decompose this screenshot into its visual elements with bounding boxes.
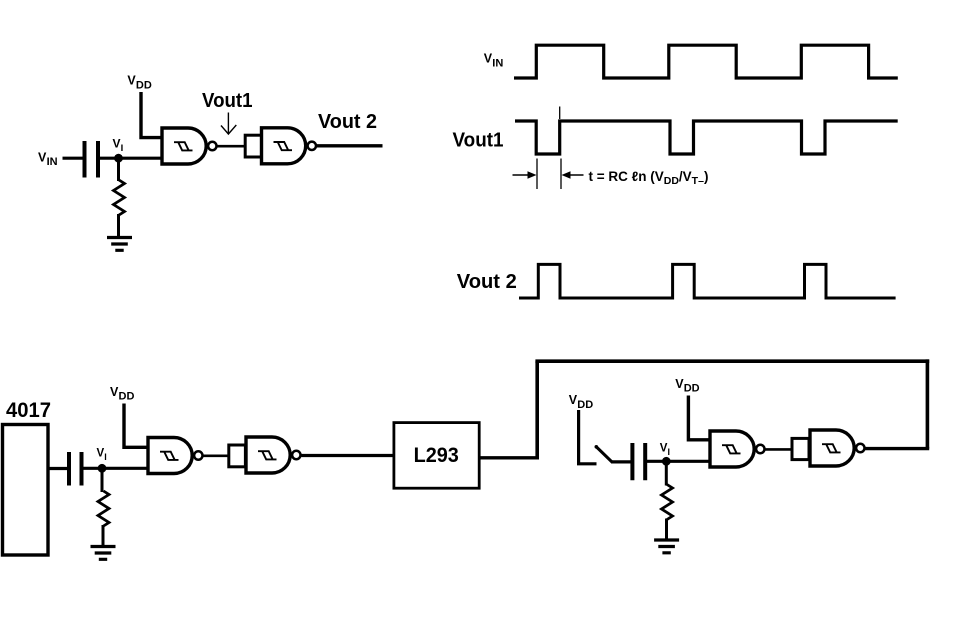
switch SW1 arm: [596, 447, 612, 463]
wire node down to resistor R2: [101, 468, 104, 492]
wire VDD to gate G3 upper input: [124, 404, 148, 448]
svg-text:t = RC ℓn (VDD/VT–): t = RC ℓn (VDD/VT–): [589, 169, 709, 187]
svg-text:DD: DD: [119, 391, 135, 403]
node VI junction dot (bottom-right): [662, 457, 671, 466]
wire resistor R1 to ground: [117, 214, 120, 238]
wire L293 output to feedback riser: [479, 456, 539, 459]
svg-text:Vout 2: Vout 2: [318, 111, 377, 133]
IC block 4017: [3, 425, 49, 556]
node VI junction dot: [114, 154, 123, 163]
svg-text:IN: IN: [47, 156, 58, 168]
waveform trace VIN: [514, 45, 898, 78]
Schmitt NAND gate G2: [262, 128, 317, 164]
wire feedback to G6 output: [865, 447, 930, 450]
resistor R2: [98, 491, 109, 526]
wire VDD to gate G1 upper input: [141, 92, 162, 138]
wire feedback top run: [535, 359, 929, 363]
svg-text:DD: DD: [684, 383, 700, 395]
wire feedback right drop: [926, 359, 930, 448]
svg-text:L293: L293: [414, 444, 459, 467]
Schmitt NAND gate G6: [810, 430, 865, 466]
resistor R3: [662, 485, 673, 520]
dimension arrow left: [513, 174, 531, 176]
waveform trace Vout1: [515, 121, 898, 154]
tick mark above Vout1 first rising edge: [559, 107, 561, 120]
svg-text:Vout1: Vout1: [453, 130, 504, 152]
wire capacitor to gate G1 input: [100, 157, 162, 160]
wire G4 output to L293: [302, 454, 395, 457]
Schmitt NAND gate G4: [246, 437, 301, 473]
wire G3 output to G4 input box: [203, 454, 229, 457]
tied-input box of gate G6: [792, 438, 809, 459]
wire G5 output to G6 input box: [766, 448, 793, 451]
svg-text:Vout 2: Vout 2: [457, 271, 517, 293]
IC block L293: [394, 423, 479, 489]
svg-text:I: I: [668, 447, 671, 457]
ground GND3: [654, 540, 679, 553]
dimension extension line left: [536, 159, 538, 190]
tied-input box of gate G2: [245, 135, 261, 157]
wire switch to capacitor C3: [611, 460, 631, 463]
node VI junction dot (bottom-left): [98, 464, 107, 473]
Schmitt NAND gate G1: [162, 128, 217, 164]
wire VDD down to switch contact: [577, 410, 597, 464]
wire 4017 output to capacitor C2: [48, 467, 68, 470]
svg-text:DD: DD: [136, 79, 152, 91]
wire VIN to capacitor: [63, 157, 84, 160]
resistor R1: [114, 180, 125, 215]
wire node VI down to resistor: [117, 158, 120, 181]
capacitor C2: [69, 452, 82, 486]
wire capacitor C2 to gate G3 input: [84, 467, 149, 470]
wire resistor R2 to ground: [102, 525, 105, 547]
dimension arrow right: [566, 174, 584, 176]
ground GND1: [107, 238, 132, 251]
svg-text:I: I: [104, 452, 107, 462]
Schmitt NAND gate G5: [710, 431, 765, 467]
waveform trace Vout 2: [519, 264, 896, 298]
arrow from Vout1 label to node: [227, 113, 229, 134]
wire feedback riser up: [535, 361, 539, 459]
capacitor C3: [632, 443, 645, 480]
tied-input box of gate G4: [229, 445, 246, 467]
wire G2 output Vout2: [317, 144, 383, 147]
svg-text:V: V: [113, 137, 121, 151]
wire VDD to gate G5 upper input: [688, 396, 710, 440]
svg-text:4017: 4017: [6, 399, 51, 422]
wire resistor R3 to ground: [665, 519, 668, 541]
svg-text:IN: IN: [492, 58, 503, 70]
svg-text:DD: DD: [577, 399, 593, 411]
wire G1 output to G2 input box: [217, 145, 245, 148]
svg-text:I: I: [121, 143, 124, 154]
ground GND2: [91, 547, 116, 560]
capacitor C1: [85, 141, 99, 178]
svg-text:Vout1: Vout1: [202, 90, 253, 112]
Schmitt NAND gate G3: [148, 438, 203, 474]
wire capacitor C3 to gate G5 input: [647, 460, 710, 463]
wire node down to resistor R3: [665, 461, 668, 486]
dimension extension line right: [560, 159, 562, 190]
